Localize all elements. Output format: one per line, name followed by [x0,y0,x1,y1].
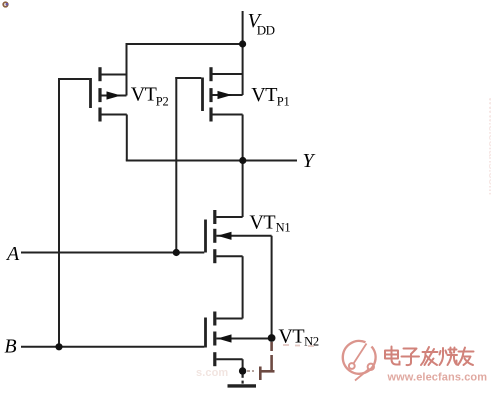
watermark text 电子发烧友 (drawn strokes) [385,347,474,366]
label VT_P1 [251,84,289,108]
wire VT_P1 bulk lead [211,94,243,96]
wire Y to VT_N1 drain vertical [242,161,244,218]
label VDD [248,10,275,37]
wire VT_N1 bulk lead [216,235,271,237]
svg-text:VT: VT [131,84,157,106]
transistor VT_N1 channel bars [213,210,216,263]
svg-text:N1: N1 [276,221,291,235]
子 [402,349,420,366]
svg-text:P1: P1 [277,94,290,108]
transistor VT_P1 gate bar [201,78,204,112]
label VT_N1 [249,211,290,234]
node A junction [173,249,180,256]
svg-text:s.com: s.com [196,367,228,379]
wire VDD rail [126,43,243,45]
wire VT_N1 source to VT_N2 drain vertical [242,256,244,318]
svg-text:VT: VT [278,325,304,347]
svg-text:www.elecfans.com: www.elecfans.com [486,96,491,195]
wire VT_P2 bulk lead [100,95,127,97]
wire VT_N2 source vertical to ground [242,359,244,371]
wire VT_P1 drain/bulk vertical [242,44,244,95]
wire input A line [21,252,204,254]
svg-text:A: A [5,243,20,265]
watermark logo circle [343,341,376,381]
发 [421,347,438,365]
wire VT_N1 drain lead [216,216,242,218]
label VT_N2 [278,325,318,348]
wire VT_N2 source lead [216,358,242,360]
node ground junction [239,367,246,374]
wire VT_N2 bulk lead [216,338,271,340]
transistor VT_P1 channel bars [209,67,212,121]
wire VT_P2 gate lead [58,78,89,80]
svg-text:VT: VT [251,84,277,106]
wire ground dot to brown elbow (faint remains) [247,370,254,372]
transistor VT_N2 bulk arrow (NMOS, points left) [217,334,231,342]
wire VT_N2 drain lead [216,318,242,320]
wire VT_P2 drain/bulk vertical [126,43,128,96]
wire VT_P2 source vertical to Y [126,115,128,161]
node Y junction [239,157,246,164]
wire VT_P2 drain lead [100,74,127,76]
svg-text:P2: P2 [156,94,169,108]
wire output Y line [126,160,297,162]
wire VT_N1 source lead [216,255,242,257]
transistor VT_N1 gate bar [204,220,207,253]
wire VT_P1 gate lead [175,77,201,79]
svg-text:DD: DD [257,23,275,38]
svg-text:B: B [4,336,16,358]
node B junction [55,343,62,350]
transistor VT_P1 bulk arrow (PMOS, points right) [218,91,233,99]
wire VT_N1 bulk vertical to node [271,236,273,338]
favicon dot [3,2,8,7]
label VT_P2 [131,84,169,109]
wire bulk tie to ground (watermark-stained brown) [260,342,275,380]
ground [228,374,257,386]
node VT_N2 bulk junction [268,334,276,342]
wire VT_P2 source lead [100,114,127,116]
wire VT_P1 source vertical to Y [242,115,244,161]
wire VT_P1 source lead [211,114,243,116]
友 [458,348,474,366]
transistor VT_P2 gate bar [89,78,92,108]
svg-text:VT: VT [249,211,275,233]
transistor VT_N1 bulk arrow (NMOS, points left) [217,232,231,240]
电 [385,347,400,365]
svg-text:Y: Y [303,150,316,172]
node VDD junction [239,40,246,47]
wire VDD stem [242,11,244,44]
wire input B line [21,346,204,348]
watermark remnant dashes near VT_N2 [283,345,314,346]
wire A net vertical [175,77,177,253]
transistor VT_P2 bulk arrow (PMOS, points right) [107,91,122,99]
transistor VT_N2 gate bar [204,318,207,348]
transistor VT_P2 channel bars [98,67,101,121]
wire B net vertical [58,78,60,347]
svg-text:www.elecfans.com: www.elecfans.com [387,372,488,384]
wire VT_P1 drain lead [211,73,243,75]
烧 [440,348,458,366]
transistor VT_N2 channel bars [213,312,216,367]
